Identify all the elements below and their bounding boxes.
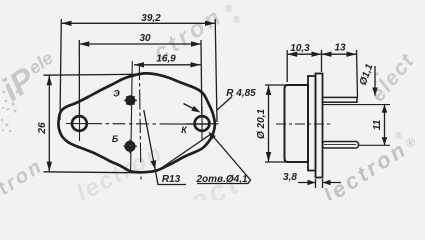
svg-text:26: 26	[37, 122, 48, 135]
right mounting hole	[195, 116, 210, 131]
svg-text:®: ®	[406, 136, 415, 150]
svg-text:®: ®	[225, 4, 233, 15]
dimension 39,2	[60, 19, 217, 122]
can body (side view)	[285, 85, 309, 162]
svg-text:Б: Б	[112, 134, 119, 144]
dimension Ø20,1 (can diameter)	[265, 85, 287, 162]
pin Б (base), front view	[124, 140, 138, 154]
svg-text:16,9: 16,9	[156, 54, 176, 65]
svg-text:®: ®	[395, 131, 403, 142]
dimension 3,8 (flange thickness)	[298, 179, 341, 188]
dimension 30	[79, 40, 202, 114]
svg-text:13: 13	[334, 43, 346, 54]
svg-text:10,3: 10,3	[290, 43, 310, 54]
dimension 26	[44, 74, 143, 173]
svg-text:30: 30	[139, 33, 151, 44]
left mounting hole	[72, 116, 87, 131]
svg-text:11: 11	[372, 119, 383, 130]
svg-text:R 4,85: R 4,85	[226, 88, 256, 99]
pin Э (side view)	[323, 97, 358, 102]
svg-text:®: ®	[233, 15, 241, 26]
dimension 16,9	[134, 64, 201, 66]
dimension 11 (pin spacing)	[384, 105, 386, 146]
svg-text:3,8: 3,8	[283, 172, 297, 183]
side centerline	[276, 123, 332, 125]
svg-text:Ø 20,1: Ø 20,1	[256, 109, 267, 139]
pin Э (emitter), front view	[124, 96, 137, 105]
svg-text:2отв.Ø4,1: 2отв.Ø4,1	[195, 174, 247, 185]
mounting flange (side view)	[316, 74, 323, 178]
transistor flange outline (front view)	[58, 73, 214, 172]
vertical centerline axis	[139, 66, 141, 180]
pin Б (side view)	[323, 142, 359, 149]
leader R4,85 (corner radius)	[217, 97, 233, 111]
leader R13 (corner radius)	[144, 110, 186, 185]
svg-text:Э: Э	[113, 89, 120, 99]
pin axis / extension line for 16,9	[131, 61, 133, 172]
horizontal centerline axis	[66, 123, 218, 126]
can rim (side view)	[308, 76, 316, 171]
dimension Ø1,1 (pin diameter)	[374, 66, 376, 96]
svg-text:R13: R13	[162, 174, 181, 185]
leader 2 отв. Ø4,1 (mounting holes)	[157, 134, 251, 184]
dimension 10,3 / 13	[287, 50, 357, 98]
svg-text:39,2: 39,2	[141, 13, 161, 24]
